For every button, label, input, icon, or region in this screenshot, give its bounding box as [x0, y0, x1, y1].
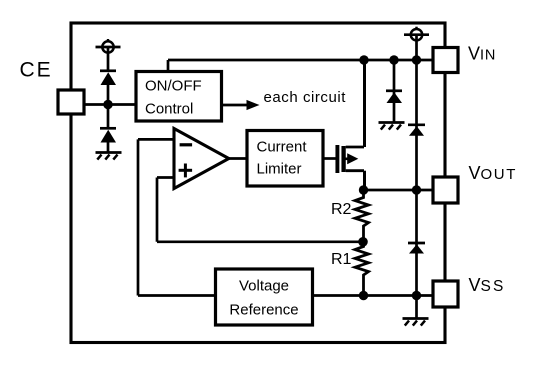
pin VOUT — [433, 177, 458, 203]
wire D1 to CE node — [107, 84, 110, 105]
arrow to each circuit — [222, 100, 260, 110]
wire non-inverting vertical — [156, 178, 159, 242]
svg-text:Reference: Reference — [229, 302, 298, 319]
wire VSS rail — [313, 294, 434, 297]
junction VSS rail / protection chain — [412, 291, 421, 300]
wire voltage reference output — [138, 294, 216, 297]
junction drain / VOUT rail — [359, 185, 368, 194]
diode D1 (CE to pull-up) — [100, 71, 116, 85]
block Current Limiter — [247, 131, 323, 187]
pin VSS — [433, 281, 458, 307]
wire gate — [323, 157, 336, 160]
diode D2 (CE to ground) — [100, 128, 116, 142]
junction divider tap — [358, 237, 368, 247]
svg-text:Control: Control — [145, 101, 193, 118]
junction R1 / VSS rail — [359, 291, 368, 300]
wire drain to VOUT rail — [363, 171, 366, 190]
resistor R1 — [355, 242, 369, 296]
op-amp U1 error amplifier — [174, 129, 229, 189]
svg-text:R1: R1 — [331, 251, 352, 268]
svg-text:Current: Current — [257, 139, 308, 156]
wire CE to ON/OFF Control — [84, 103, 136, 106]
wire source to VIN rail — [363, 60, 366, 147]
block Voltage Reference — [216, 269, 313, 325]
pin CE — [58, 90, 84, 114]
ground G2 — [379, 123, 405, 130]
wire non-inverting input — [157, 176, 174, 179]
diode D4 (VOUT to VIN) — [408, 125, 425, 136]
junction CE node — [103, 100, 112, 109]
wire protection chain vertical — [415, 35, 418, 318]
svg-text:VOUT: VOUT — [469, 163, 517, 183]
wire ON/OFF Control to VIN rail — [167, 60, 170, 72]
svg-text:Voltage: Voltage — [239, 278, 289, 295]
junction VIN rail / D3 branch — [389, 55, 398, 64]
pin VIN — [433, 48, 458, 73]
wire inverting input — [138, 138, 174, 141]
IC outline box — [71, 23, 445, 343]
transistor Q1 PMOS pass device — [337, 145, 364, 173]
wire VOUT rail — [364, 189, 434, 192]
diode D5 (VSS to VOUT) — [408, 243, 425, 254]
pull-up terminal symbol (circle) at VIN — [404, 27, 429, 41]
wire feedback vertical to voltage reference — [137, 139, 140, 295]
ground G1 — [96, 153, 122, 160]
svg-text:ON/OFF: ON/OFF — [145, 78, 202, 95]
wire op-amp output — [229, 157, 247, 160]
junction VOUT rail / protection chain — [412, 185, 421, 194]
wire CE node to D2 — [107, 105, 110, 129]
block ON/OFF Control — [136, 72, 222, 122]
ground G3 — [403, 319, 429, 326]
svg-text:CE: CE — [20, 59, 53, 82]
resistor R2 — [355, 190, 369, 242]
wire VIN rail — [168, 59, 433, 62]
wire D2 to ground — [107, 142, 110, 153]
pull-up terminal symbol (circle) at CE — [96, 39, 121, 71]
junction VIN rail / protection chain — [412, 55, 421, 64]
diode D3 (VIN clamp) — [386, 60, 402, 123]
svg-text:VSS: VSS — [469, 275, 506, 295]
svg-text:each circuit: each circuit — [264, 89, 347, 106]
wire feedback tap to divider — [157, 240, 363, 243]
junction VIN rail / source — [359, 55, 368, 64]
svg-text:R2: R2 — [331, 201, 352, 218]
svg-text:Limiter: Limiter — [257, 161, 302, 178]
